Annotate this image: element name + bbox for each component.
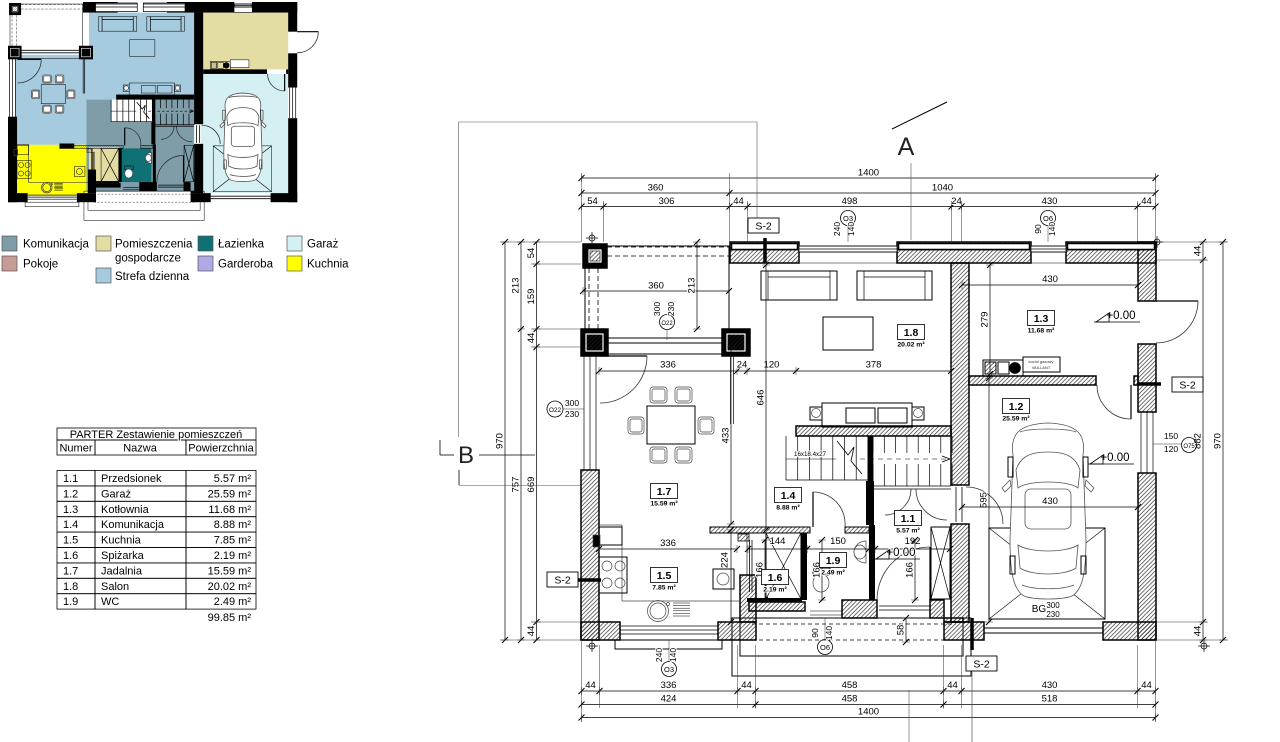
svg-text:360: 360 — [648, 281, 664, 292]
wall exterior top B — [167, 2, 234, 13]
wall exterior kitchen bottom left piece — [8, 193, 28, 202]
wall exterior left — [581, 470, 599, 640]
kitchen counter left — [17, 144, 29, 182]
chair — [675, 447, 692, 463]
svg-text:336: 336 — [660, 360, 676, 371]
svg-text:150: 150 — [1164, 431, 1178, 441]
pantry shelving X — [101, 148, 119, 181]
wall porch entrance right — [930, 600, 944, 618]
window code O3 top — [841, 211, 856, 226]
wall exterior top A — [83, 2, 118, 13]
entrance threshold — [879, 605, 930, 607]
svg-text:1.1: 1.1 — [901, 513, 916, 525]
svg-text:44: 44 — [947, 680, 958, 691]
svg-text:300: 300 — [1046, 601, 1060, 610]
wall pantry left lower — [88, 169, 96, 193]
window O75 garage right — [289, 88, 291, 119]
mini fill strefa dzienna salon — [89, 13, 194, 100]
wall fixture — [593, 535, 600, 547]
svg-text:15.59 m²: 15.59 m² — [650, 501, 678, 508]
window salon west glazing — [82, 59, 84, 93]
svg-text:1.8: 1.8 — [904, 327, 919, 339]
svg-text:Pokoje: Pokoje — [23, 259, 58, 271]
svg-text:54: 54 — [526, 248, 537, 259]
svg-text:VAILLANT: VAILLANT — [1032, 365, 1051, 370]
terrace post P2 — [581, 329, 608, 356]
svg-text:O22: O22 — [661, 321, 673, 327]
door jadalnia-terrace — [18, 58, 42, 60]
svg-text:458: 458 — [842, 694, 858, 705]
svg-text:Kuchnia: Kuchnia — [101, 535, 142, 547]
svg-text:Garaż: Garaż — [101, 488, 131, 500]
wall exterior top C — [1066, 242, 1156, 263]
door hall-garage — [196, 125, 198, 143]
wall interior wc top right — [845, 527, 869, 533]
legend swatch kuchnia — [287, 256, 302, 271]
svg-text:O6: O6 — [820, 643, 830, 652]
svg-text:970: 970 — [1213, 433, 1224, 449]
washbasin — [854, 541, 866, 563]
svg-text:430: 430 — [1042, 496, 1058, 507]
porch dashed edge lines — [752, 623, 956, 625]
window O3 salon top — [799, 246, 897, 252]
mini fill kotlownia — [201, 13, 288, 70]
svg-text:430: 430 — [1042, 196, 1058, 207]
wall stub corridor-stairs — [866, 481, 874, 525]
door hall-garage — [955, 487, 957, 522]
svg-text:378: 378 — [866, 360, 882, 371]
window code O6 porch — [818, 640, 833, 655]
wall pantry bottom thin — [91, 181, 119, 183]
svg-text:140: 140 — [824, 626, 834, 640]
wall connector porch-garage — [944, 618, 963, 622]
svg-text:kocioł gazowy: kocioł gazowy — [1029, 359, 1054, 364]
door entrance — [929, 547, 931, 600]
pantry sliding door — [749, 540, 751, 592]
legend swatch pokoje — [2, 256, 17, 271]
window O6 porch wall — [810, 610, 842, 612]
dim 433 vertical — [730, 347, 732, 524]
svg-text:336: 336 — [661, 680, 677, 691]
section mark S-2 bottom — [966, 656, 997, 671]
pantry left boundary line — [90, 149, 92, 170]
wall exterior right lower — [1138, 473, 1156, 640]
svg-text:Strefa dzienna: Strefa dzienna — [115, 271, 190, 283]
terrace beam — [22, 49, 79, 51]
kitchen terrace step — [615, 640, 722, 649]
terrace dashed lines from posts — [588, 268, 590, 329]
survey mark — [1201, 643, 1207, 649]
terrace beam — [608, 337, 722, 339]
dimension chain bottom row3 — [582, 717, 1156, 719]
dimension chain bottom row1 — [582, 690, 1156, 692]
svg-text:757: 757 — [511, 477, 522, 493]
svg-text:230: 230 — [666, 302, 676, 316]
svg-text:433: 433 — [721, 428, 732, 444]
stairs middle wall — [152, 100, 155, 125]
porch dashed edge lines — [94, 193, 197, 195]
stairs left flight — [110, 100, 112, 122]
svg-text:498: 498 — [842, 196, 858, 207]
svg-text:1.6: 1.6 — [63, 550, 78, 562]
dim pantry 166 vertical — [764, 540, 766, 600]
car — [1010, 423, 1086, 599]
wall interior kotlownia-garage piece — [1134, 376, 1138, 385]
svg-text:279: 279 — [980, 312, 991, 328]
svg-text:2.19 m²: 2.19 m² — [214, 550, 252, 562]
chair — [43, 105, 52, 113]
survey mark — [589, 235, 595, 241]
wall interior kotlownia-garage — [203, 69, 267, 74]
mini fill garaz — [201, 74, 288, 193]
room label 1.3 — [1028, 311, 1055, 326]
section mark S-2 top — [748, 218, 779, 233]
svg-text:44: 44 — [733, 196, 744, 207]
wall porch band under pantry — [749, 602, 805, 611]
window kitchen bottom — [620, 625, 718, 627]
legend swatch garaz — [287, 236, 302, 251]
dim wc 166 vertical — [821, 540, 823, 600]
svg-text:518: 518 — [1042, 694, 1058, 705]
svg-text:230: 230 — [1046, 610, 1060, 619]
svg-text:Garaż: Garaż — [307, 239, 339, 251]
wall interior salon-stairs — [796, 426, 951, 436]
svg-text:430: 430 — [1042, 274, 1058, 285]
svg-text:1400: 1400 — [858, 707, 879, 718]
sink — [648, 601, 669, 622]
wall exterior kitchen bottom right piece — [718, 622, 756, 640]
svg-text:44: 44 — [1193, 246, 1204, 257]
mini fill strefa dzienna jadalnia — [15, 55, 89, 145]
svg-text:Jadalnia: Jadalnia — [101, 565, 143, 577]
wall exterior right upper — [288, 2, 297, 32]
svg-text:1.5: 1.5 — [63, 535, 78, 547]
svg-text:1.4: 1.4 — [781, 490, 796, 502]
svg-text:1.7: 1.7 — [657, 486, 672, 498]
dimension chain right col2 970 — [1222, 242, 1224, 640]
wall block pantry top — [87, 149, 93, 153]
svg-text:90: 90 — [810, 628, 820, 638]
door kotlownia-garage — [1130, 385, 1132, 419]
wall fixture — [14, 149, 18, 155]
svg-text:O22: O22 — [549, 407, 562, 414]
tv sideboard — [822, 403, 912, 427]
window O6 kotlownia top — [1031, 246, 1066, 252]
window O6 kotlownia top — [234, 4, 252, 7]
svg-text:58: 58 — [896, 625, 907, 636]
window O75 garage right — [1140, 412, 1142, 473]
drainer — [673, 602, 690, 604]
axis frame lines — [459, 121, 758, 123]
svg-text:424: 424 — [661, 694, 677, 705]
svg-text:1.3: 1.3 — [63, 504, 78, 516]
svg-text:Garderoba: Garderoba — [218, 259, 274, 271]
svg-text:44: 44 — [741, 680, 752, 691]
svg-text:2.49 m²: 2.49 m² — [821, 570, 845, 577]
svg-text:213: 213 — [511, 278, 522, 294]
svg-text:7.85 m²: 7.85 m² — [214, 535, 252, 547]
dimension chain right col1 — [1202, 242, 1204, 640]
mini kitchen-jadalnia wall — [60, 144, 74, 149]
drainer — [54, 183, 63, 185]
dim terrace 213 vertical — [696, 242, 698, 329]
chair left — [628, 417, 644, 434]
svg-text:300: 300 — [652, 302, 662, 316]
wall exterior top B — [897, 242, 1031, 263]
svg-text:Kuchnia: Kuchnia — [307, 259, 349, 271]
wall interior garage-salon — [951, 263, 969, 485]
wall exterior garage bottom left piece — [191, 193, 211, 202]
dimension chain left col1 970 — [504, 242, 506, 640]
svg-text:140: 140 — [668, 648, 678, 662]
wall porch entrance right — [184, 182, 191, 191]
room label 1.1 — [895, 511, 922, 526]
svg-text:1400: 1400 — [858, 168, 879, 179]
wall connector porch-garage — [191, 191, 201, 193]
wall block pantry top — [738, 534, 749, 541]
toilet — [813, 568, 830, 575]
kitchen terrace step — [25, 202, 79, 207]
window jadalnia west glazing — [583, 356, 585, 470]
dim garage 430 — [962, 506, 1138, 508]
svg-text:2.49 m²: 2.49 m² — [214, 596, 252, 608]
stairs direction arrow — [137, 102, 150, 119]
svg-text:44: 44 — [1141, 680, 1152, 691]
svg-text:44: 44 — [526, 333, 537, 344]
coffee table salon — [823, 317, 873, 350]
window O6 porch wall — [123, 187, 139, 189]
main floor plan group — [581, 242, 1198, 676]
pantry left boundary line — [746, 534, 748, 575]
car wheels — [223, 110, 226, 120]
svg-text:54: 54 — [587, 196, 598, 207]
dim wc 150 — [807, 548, 869, 550]
tv sideboard — [129, 83, 174, 95]
wall exterior right mid — [1138, 344, 1156, 412]
svg-text:166: 166 — [905, 562, 916, 578]
stairs middle wall — [868, 436, 873, 486]
wall exterior garage bottom right piece — [1103, 622, 1156, 640]
door jadalnia-terrace — [600, 355, 647, 357]
bottom extension lines — [581, 640, 583, 722]
stairs landing sill — [155, 124, 194, 126]
svg-text:150: 150 — [830, 536, 846, 547]
survey mark — [1154, 239, 1160, 245]
dimension chain bottom row2 — [582, 704, 1156, 706]
svg-text:Numer: Numer — [59, 443, 92, 455]
legend swatch garderoba — [198, 256, 213, 271]
svg-text:646: 646 — [756, 390, 767, 406]
chair — [55, 105, 64, 113]
svg-text:+0.00: +0.00 — [1106, 310, 1135, 322]
washbasin — [145, 152, 151, 163]
wall porch between window and door — [842, 600, 877, 618]
svg-text:11.68 m²: 11.68 m² — [208, 504, 251, 516]
legend swatch pomieszczenia gospodarcze — [96, 236, 111, 251]
door kotlownia exterior — [1156, 300, 1198, 302]
svg-text:8.88 m²: 8.88 m² — [776, 505, 800, 512]
svg-text:+0.00: +0.00 — [886, 547, 915, 559]
sofa 2 salon — [857, 271, 932, 300]
svg-text:2.19 m²: 2.19 m² — [763, 587, 787, 594]
room label 1.5 — [651, 568, 678, 583]
garage gate — [211, 195, 271, 197]
svg-text:O3: O3 — [664, 665, 674, 674]
sofa 2 salon — [147, 17, 185, 32]
room label 1.9 — [820, 553, 847, 568]
dim hall 166 vertical — [914, 540, 916, 600]
svg-text:240: 240 — [654, 648, 664, 662]
wall exterior right upper — [1138, 242, 1156, 301]
svg-text:S-2: S-2 — [1179, 380, 1196, 392]
garage slab — [213, 146, 271, 192]
dim garage 595 vertical — [988, 378, 990, 622]
wall interior kotlownia-garage piece — [286, 69, 288, 74]
svg-text:O75: O75 — [1183, 444, 1195, 450]
mini fill spizarka — [89, 147, 119, 182]
dimension chain left col2 — [520, 242, 522, 640]
svg-text:25.59 m²: 25.59 m² — [208, 488, 252, 500]
svg-text:159: 159 — [526, 289, 537, 305]
svg-text:7.85 m²: 7.85 m² — [652, 585, 676, 592]
top extension lines — [581, 173, 583, 242]
window code O22 terrace — [660, 315, 675, 330]
svg-text:Komunikacja: Komunikacja — [23, 239, 89, 251]
stairs left flight — [785, 436, 787, 480]
boiler kociol gazowy — [210, 61, 230, 69]
terrace post P3 — [79, 46, 93, 60]
mini fill kuchnia — [15, 145, 86, 195]
svg-text:S-2: S-2 — [554, 575, 571, 587]
table header — [57, 428, 256, 440]
svg-text:WC: WC — [101, 596, 119, 608]
svg-text:Kotłownia: Kotłownia — [101, 504, 150, 516]
svg-text:90: 90 — [1033, 224, 1043, 234]
svg-text:Przedsionek: Przedsionek — [101, 473, 162, 485]
chair — [650, 447, 667, 463]
svg-text:Pomieszczenia: Pomieszczenia — [115, 239, 193, 251]
wall interior wc-hall — [153, 144, 156, 182]
terrace outline top-left — [585, 246, 729, 354]
terrace post P1 — [9, 3, 21, 15]
kitchen counter left — [599, 525, 622, 601]
stove — [17, 160, 31, 178]
dim pantry 144 — [748, 548, 807, 550]
hall wardrobe X — [931, 527, 950, 599]
svg-text:300: 300 — [565, 398, 579, 408]
legend swatch strefa dzienna — [96, 268, 111, 283]
dim 646 vertical — [765, 265, 767, 530]
svg-text:1.9: 1.9 — [63, 596, 78, 608]
wall porch between window and door — [139, 182, 157, 191]
svg-text:S-2: S-2 — [755, 221, 772, 233]
left extension lines — [500, 241, 581, 243]
svg-text:A: A — [898, 133, 915, 161]
svg-text:1040: 1040 — [932, 183, 953, 194]
mini fill wc — [121, 148, 152, 182]
wall interior wc top right — [141, 145, 153, 148]
chair — [675, 387, 692, 403]
stairs landing sill — [873, 485, 951, 487]
svg-text:5.57 m²: 5.57 m² — [896, 528, 920, 535]
door kotlownia-garage — [283, 74, 285, 91]
wall exterior garage bottom left piece — [944, 622, 984, 640]
dim hall 192 — [875, 548, 950, 550]
dimension chain left col3 — [536, 242, 538, 640]
dimension chain top row3 — [582, 206, 1156, 208]
wall exterior left — [8, 117, 17, 203]
svg-text:1.8: 1.8 — [63, 581, 78, 593]
section mark S-2 left — [547, 572, 578, 587]
door entrance — [182, 155, 184, 182]
svg-text:PARTER Zestawienie pomieszczeń: PARTER Zestawienie pomieszczeń — [70, 429, 243, 441]
svg-text:Powierzchnia: Powierzchnia — [188, 443, 254, 455]
stairs direction arrow — [837, 441, 862, 474]
dining table — [647, 406, 695, 444]
double swing arcs below stairs — [885, 489, 911, 515]
svg-text:1.3: 1.3 — [1034, 313, 1049, 325]
svg-text:Komunikacja: Komunikacja — [101, 519, 165, 531]
boiler kociol gazowy — [983, 360, 1023, 376]
svg-text:1.5: 1.5 — [657, 570, 672, 582]
svg-text:230: 230 — [565, 409, 579, 419]
car — [224, 93, 262, 182]
mini salon windows — [96, 3, 138, 12]
room label 1.6 — [762, 570, 789, 585]
window kitchen bottom — [28, 194, 77, 196]
wall exterior right mid — [288, 53, 297, 87]
dim porch 58 vertical — [905, 618, 907, 642]
sofa 1 salon — [761, 271, 837, 300]
window code O22 left — [547, 401, 563, 417]
chair left — [32, 90, 40, 99]
svg-text:1.6: 1.6 — [768, 572, 783, 584]
chair right — [67, 90, 75, 99]
mini stairs left flight white — [111, 100, 153, 123]
entrance porch outline outer — [732, 618, 971, 676]
svg-text:44: 44 — [1141, 196, 1152, 207]
svg-text:8.88 m²: 8.88 m² — [214, 519, 252, 531]
dimension chain top row2 — [582, 192, 1156, 194]
wall exterior kitchen bottom left piece — [581, 622, 620, 640]
hall wardrobe X — [184, 145, 194, 181]
svg-text:336: 336 — [660, 538, 676, 549]
window salon west glazing — [730, 356, 732, 424]
svg-text:Łazienka: Łazienka — [218, 239, 265, 251]
wall exterior top A — [730, 242, 799, 263]
door kotlownia exterior — [297, 30, 318, 32]
wall interior kotlownia-garage — [969, 376, 1096, 385]
svg-text:99.85 m²: 99.85 m² — [208, 612, 252, 624]
svg-text:44: 44 — [526, 626, 537, 637]
svg-text:44: 44 — [585, 680, 596, 691]
chair — [650, 387, 667, 403]
entrance porch outline outer — [84, 191, 204, 220]
svg-text:144: 144 — [770, 536, 786, 547]
wall pantry bottom thin — [747, 598, 802, 602]
wall pantry left lower — [740, 575, 756, 622]
door wc — [123, 128, 125, 146]
svg-text:213: 213 — [687, 278, 698, 294]
svg-text:224: 224 — [720, 552, 731, 568]
section mark S-2 right — [1172, 377, 1203, 392]
sink — [41, 182, 52, 193]
dim 224 vertical — [730, 530, 732, 622]
svg-text:25.59 m²: 25.59 m² — [1002, 416, 1030, 423]
survey mark — [589, 643, 595, 649]
svg-text:+0.00: +0.00 — [1100, 452, 1129, 464]
window code O6 top — [1041, 211, 1056, 226]
